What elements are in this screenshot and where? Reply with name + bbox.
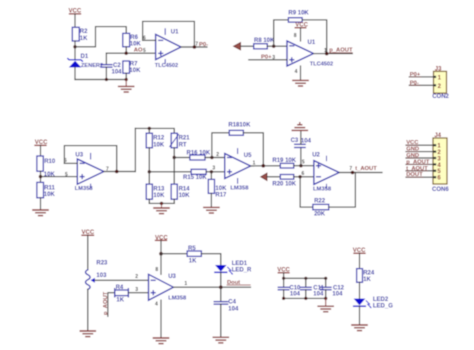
wire feedback loop U3	[64, 146, 116, 172]
wire R12 top lead	[148, 128, 150, 133]
wire bridge top rail	[135, 128, 174, 133]
svg-text:R22: R22	[314, 199, 326, 205]
svg-text:U2: U2	[312, 153, 320, 159]
svg-text:P0+: P0+	[261, 55, 272, 61]
svg-text:104: 104	[313, 292, 324, 298]
junction R16/R18	[210, 156, 213, 159]
resistor R7 10K	[123, 61, 141, 80]
pin squares J4	[433, 144, 436, 178]
wire feedback loop R18	[212, 133, 229, 158]
svg-text:LM358: LM358	[75, 186, 94, 192]
net label p_AOUT (J4)	[406, 159, 430, 165]
connector J3 CON2	[432, 67, 449, 101]
svg-text:LED_G: LED_G	[373, 303, 393, 309]
potentiometer R23 103	[86, 261, 109, 331]
wire output	[104, 171, 135, 173]
svg-text:U1: U1	[171, 29, 179, 35]
ground (R17)	[204, 207, 219, 213]
svg-text:C3: C3	[291, 138, 299, 144]
capacitor C10 104	[278, 278, 301, 298]
ground (C4)	[213, 337, 228, 343]
net label t_AOUT (J4)	[406, 166, 428, 172]
resistor R6 10K	[123, 33, 142, 53]
svg-text:R12: R12	[153, 136, 165, 142]
svg-text:104: 104	[228, 306, 239, 312]
LED2 LED_G	[354, 297, 394, 324]
wire inverting input	[64, 162, 77, 164]
pin square J3-2	[433, 84, 436, 86]
svg-text:ZENER2: ZENER2	[81, 63, 103, 69]
wire output up to bridge rail	[134, 128, 136, 171]
ground (U1 pin 4)	[293, 80, 308, 86]
svg-text:U1: U1	[308, 40, 316, 46]
net label Dout	[227, 280, 250, 286]
power VCC (op-amp pin 8)	[294, 23, 309, 41]
svg-text:TLC4502: TLC4502	[155, 63, 178, 69]
wire output t_AOUT	[339, 172, 382, 174]
svg-text:8: 8	[155, 267, 158, 273]
op-amp U3 LM358 (comparator)	[149, 274, 188, 301]
ground (zener block)	[119, 80, 134, 93]
wire J4 pin3	[406, 157, 433, 159]
op-amp U1 TLC4502 (buffer)	[155, 29, 181, 69]
resistor R11 10K	[37, 182, 56, 209]
junction output/feedback	[325, 52, 329, 56]
resistor R19 10K	[272, 158, 314, 168]
junction R20/R22	[298, 175, 301, 178]
resistor R2 1K	[72, 27, 88, 59]
zener diode D1 ZENER2	[68, 54, 103, 79]
ground (comparator pin 4)	[153, 338, 168, 344]
ground (bridge)	[154, 203, 169, 213]
svg-text:4: 4	[155, 302, 158, 308]
svg-text:1K: 1K	[189, 258, 197, 264]
power VCC (comparator pin 8)	[155, 235, 168, 253]
svg-text:C4: C4	[228, 300, 236, 306]
op-amp U3 LM358 (buffer)	[75, 153, 104, 192]
net label GND (J4 pin3)	[406, 153, 419, 159]
svg-text:P0-: P0-	[199, 42, 208, 48]
svg-text:5: 5	[65, 172, 68, 178]
svg-text:CON2: CON2	[432, 94, 449, 100]
svg-text:TLC4502: TLC4502	[310, 62, 333, 68]
svg-text:R1810K: R1810K	[228, 123, 251, 129]
svg-text:104: 104	[332, 292, 343, 298]
svg-text:R10: R10	[44, 159, 56, 165]
wire port to R8	[241, 45, 254, 47]
wire ground rail (D1/C2/R7)	[75, 79, 126, 81]
svg-text:R17: R17	[215, 192, 227, 198]
svg-text:R15 10K: R15 10K	[183, 175, 207, 181]
wire node to R6 top	[75, 27, 126, 47]
node: R2/D1/wire junction	[73, 45, 76, 48]
capacitor C3 104	[291, 131, 312, 166]
svg-text:3: 3	[135, 287, 138, 293]
svg-text:CON6: CON6	[432, 187, 449, 193]
svg-text:C2: C2	[113, 63, 121, 69]
resistor R17 10K	[208, 172, 227, 207]
junction bottom rail	[160, 202, 163, 205]
svg-text:6: 6	[302, 171, 305, 177]
svg-text:LED2: LED2	[373, 297, 389, 303]
power VCC (LED2)	[353, 248, 366, 269]
resistor R5 1K	[187, 246, 221, 265]
net label GND (J4 pin2)	[406, 147, 419, 153]
wire op-amp pin 4 to ground	[295, 66, 301, 80]
node bridge left midpoint	[148, 170, 151, 173]
svg-text:5: 5	[302, 159, 305, 165]
wire left midpoint to R15	[149, 171, 191, 173]
capacitor C12 104	[320, 278, 344, 298]
resistor R8 10K	[254, 38, 287, 49]
svg-text:LED_R: LED_R	[232, 268, 252, 274]
pin square J3-1	[433, 76, 436, 78]
svg-text:R6: R6	[130, 35, 138, 41]
wire R22 to output	[329, 173, 356, 208]
resistor R22 20K	[313, 199, 329, 218]
junction VCC/R5/pin8	[159, 252, 163, 256]
op-amp U2 LM358 (output stage)	[312, 153, 339, 193]
svg-text:103: 103	[96, 273, 107, 279]
wire output p_AOUT	[314, 53, 353, 55]
net label DOUT (J4)	[406, 172, 423, 178]
thermistor R21 RT	[170, 133, 190, 157]
svg-text:5: 5	[143, 48, 146, 54]
wire R18 to output	[243, 133, 263, 166]
junction output/R18	[262, 164, 266, 168]
svg-text:8: 8	[294, 33, 297, 39]
junction R15/R17	[210, 170, 213, 173]
ground (cap bank)	[318, 298, 333, 311]
svg-text:1K: 1K	[80, 36, 88, 42]
wire wiper to - input	[95, 279, 149, 281]
wire feedback loop R22	[300, 177, 313, 207]
svg-text:104: 104	[112, 70, 123, 76]
svg-text:10K: 10K	[44, 172, 56, 178]
ground (above C3, inverted)	[292, 123, 307, 131]
wire R9 to output	[302, 20, 327, 54]
svg-text:1: 1	[324, 48, 327, 54]
resistor R14 10K	[171, 158, 190, 204]
svg-text:R2: R2	[80, 29, 88, 35]
node AO	[125, 52, 128, 55]
wire inverting input	[143, 39, 156, 41]
junction R8/feedback	[272, 45, 275, 48]
svg-text:U3: U3	[75, 153, 83, 159]
svg-text:R21: R21	[179, 136, 191, 142]
svg-text:R20 10K: R20 10K	[272, 181, 296, 187]
junction R12 top	[148, 127, 151, 130]
svg-text:10K: 10K	[153, 193, 165, 199]
wire pin 8	[155, 254, 161, 275]
resistor R10 10K	[37, 156, 56, 182]
svg-text:R24: R24	[363, 271, 375, 277]
wire output U5	[251, 165, 281, 167]
power VCC (zener reference)	[69, 9, 82, 28]
svg-text:7: 7	[106, 166, 109, 172]
node bridge right midpoint	[173, 156, 176, 159]
svg-text:R7: R7	[130, 61, 138, 67]
svg-text:2: 2	[135, 274, 138, 280]
resistor R12 10K	[146, 133, 165, 172]
svg-text:R23: R23	[96, 261, 108, 267]
LED1 LED_R	[215, 261, 252, 287]
junction C2 bottom	[105, 78, 108, 81]
svg-text:10K: 10K	[179, 193, 191, 199]
svg-text:10K: 10K	[44, 192, 56, 198]
wire J4 pin6	[406, 176, 433, 178]
capacitor C2 104	[101, 53, 122, 79]
wire cap bank bottom rail	[284, 297, 326, 299]
svg-text:1K: 1K	[116, 297, 124, 303]
svg-text:LED1: LED1	[232, 261, 248, 267]
svg-text:3: 3	[272, 55, 275, 61]
resistor R9 10K	[288, 10, 309, 22]
ground (LED2)	[352, 325, 367, 331]
resistor R18 10K	[228, 123, 251, 136]
junction bottom rail	[282, 297, 327, 300]
svg-text:10K: 10K	[215, 186, 227, 192]
svg-text:3: 3	[212, 166, 215, 172]
wire comparator output Dout	[173, 286, 250, 288]
svg-text:t_AOUT: t_AOUT	[355, 166, 377, 172]
wire non-inverting input P0+	[249, 59, 287, 61]
net label VCC (J4)	[406, 140, 419, 146]
wire node AO to op-amp + input	[106, 52, 155, 54]
resistor R20 10K	[272, 175, 314, 188]
capacitor C4 104	[214, 287, 239, 337]
net label AO, pin 5	[134, 48, 146, 54]
svg-text:RT: RT	[179, 142, 187, 148]
resistor R15 10K	[183, 169, 225, 181]
net label P0+ (J3)	[410, 72, 421, 78]
wire J3 pin1	[409, 76, 433, 78]
resistor R16 10K	[187, 150, 225, 160]
junction R19/C3	[299, 164, 302, 167]
svg-text:LM358: LM358	[168, 296, 187, 302]
svg-text:104: 104	[301, 139, 312, 145]
svg-text:R14: R14	[179, 186, 191, 192]
net label P0- (J3)	[410, 80, 420, 86]
svg-text:U3: U3	[168, 274, 176, 280]
net label P0+ pin 3	[261, 55, 275, 61]
junction output/feedback	[193, 45, 197, 49]
resistor R4 1K	[115, 285, 149, 304]
wire p_AOUT to R4	[108, 293, 115, 317]
ground (pot)	[80, 331, 95, 337]
svg-text:7: 7	[195, 42, 198, 48]
ground (divider)	[33, 210, 48, 216]
port arrow (input to R20)	[261, 173, 267, 180]
wire pin 4 to ground	[155, 300, 161, 337]
connector J4 CON6	[432, 133, 449, 193]
port arrow (input P0-)	[234, 42, 241, 50]
resistor R24 1K	[357, 269, 375, 299]
power VCC (divider)	[35, 140, 48, 156]
op-amp U1 TLC4502 (diff input)	[287, 40, 333, 68]
wire J4 pin4	[406, 163, 433, 165]
svg-text:D1: D1	[81, 54, 89, 60]
wire VCC to R5	[161, 253, 187, 255]
svg-text:4: 4	[295, 69, 298, 75]
junction output/R22	[351, 171, 355, 175]
junction R7 bottom	[125, 78, 128, 81]
svg-text:AO: AO	[134, 48, 143, 54]
wire bridge bottom rail	[149, 202, 174, 204]
wire cap bank top rail	[284, 277, 326, 279]
net label p_AOUT	[329, 48, 353, 54]
junction Dout	[219, 285, 223, 289]
wire J4 pin2	[406, 151, 433, 153]
svg-text:10K: 10K	[153, 142, 165, 148]
junction output/feedback	[115, 170, 119, 174]
power VCC (decoupling caps)	[277, 267, 290, 278]
svg-text:7: 7	[349, 166, 352, 172]
svg-text:1: 1	[184, 281, 187, 287]
wire port to R20	[267, 176, 280, 178]
resistor R13 10K	[146, 172, 165, 204]
wire right midpoint to R16	[174, 157, 190, 159]
junction top rail	[282, 277, 327, 280]
node divider midpoint	[39, 175, 42, 178]
capacitor C11 104	[301, 278, 325, 298]
svg-text:R13: R13	[153, 186, 165, 192]
wire feedback loop with R9	[274, 20, 289, 46]
wire J4 pin1	[406, 144, 433, 146]
svg-text:10K: 10K	[129, 68, 141, 74]
wire J3 pin2	[409, 84, 433, 86]
svg-text:1K: 1K	[363, 277, 371, 283]
svg-text:R8 10K: R8 10K	[254, 38, 275, 44]
op-amp U5 LM358 (bridge diff amp)	[225, 149, 252, 192]
power VCC (pot R23)	[82, 230, 95, 270]
svg-text:20K: 20K	[314, 212, 326, 218]
svg-text:LM358: LM358	[230, 186, 249, 192]
svg-text:2: 2	[216, 152, 219, 158]
wire feedback loop U1	[143, 21, 195, 47]
wire J4 pin5	[406, 170, 433, 172]
svg-text:U5: U5	[244, 153, 252, 159]
svg-text:R11: R11	[44, 185, 55, 191]
svg-text:1: 1	[253, 161, 256, 167]
svg-text:R9 10K: R9 10K	[288, 10, 309, 16]
svg-text:104: 104	[290, 292, 301, 298]
svg-text:LM358: LM358	[313, 186, 332, 192]
wire output	[181, 46, 207, 48]
wire divider to + input	[41, 176, 78, 178]
